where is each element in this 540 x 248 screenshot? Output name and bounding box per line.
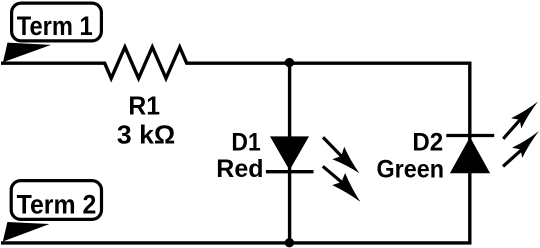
svg-text:Term 2: Term 2 [17,189,97,220]
svg-text:R1: R1 [128,93,160,121]
svg-text:D2: D2 [412,129,443,157]
svg-text:Red: Red [216,155,263,183]
svg-text:Term 1: Term 1 [17,10,93,41]
svg-text:3 kΩ: 3 kΩ [117,121,175,149]
svg-text:D1: D1 [231,129,260,157]
svg-text:Green: Green [377,156,445,184]
